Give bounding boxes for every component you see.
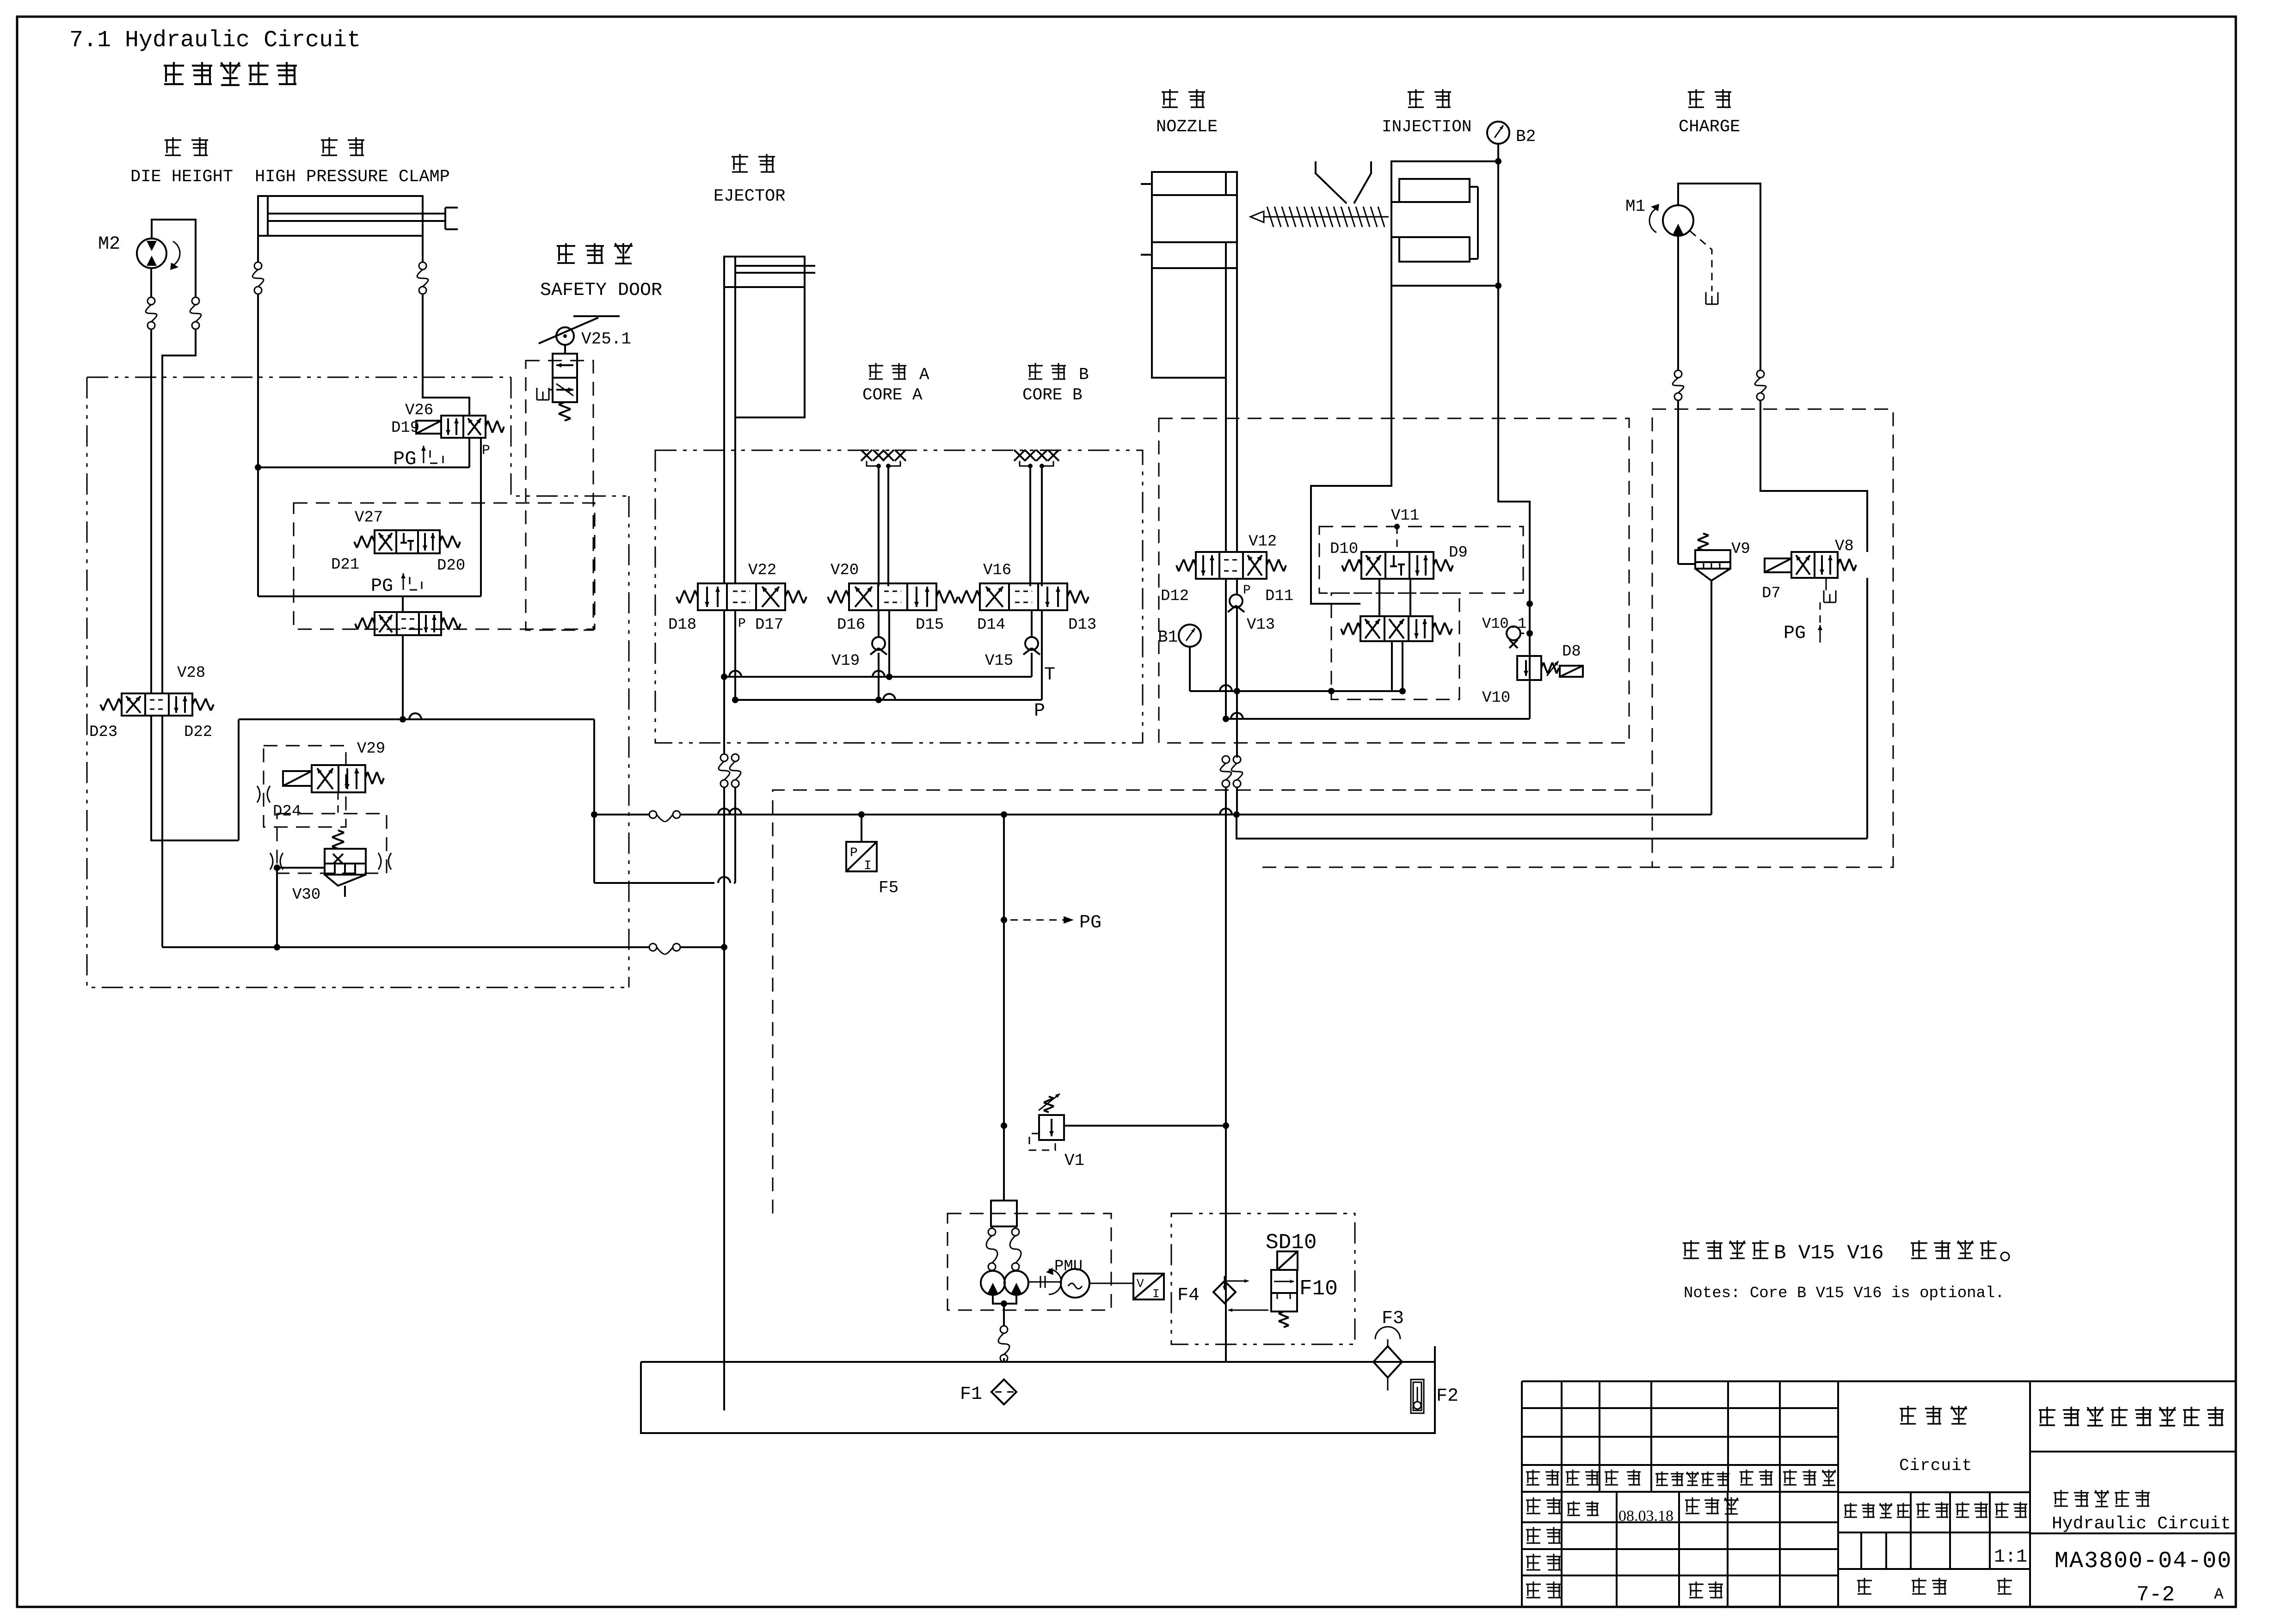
dashed box pump unit bbox=[948, 1213, 1111, 1310]
svg-text:F10: F10 bbox=[1299, 1277, 1338, 1301]
label V15 bbox=[985, 652, 1013, 670]
svg-text:V19: V19 bbox=[831, 652, 860, 670]
svg-text:DIE HEIGHT: DIE HEIGHT bbox=[130, 167, 233, 187]
wire V10 right bbox=[1526, 527, 1533, 719]
label D23 bbox=[89, 723, 117, 741]
dashed box center bbox=[773, 790, 1652, 1213]
wire V19 down bbox=[878, 610, 880, 700]
svg-text:V20: V20 bbox=[831, 562, 859, 579]
title text 7.1 Hydraulic Circuit bbox=[69, 27, 361, 54]
wire injection right down bbox=[1498, 286, 1530, 527]
svg-text:CHARGE: CHARGE bbox=[1679, 117, 1740, 137]
wire V11 top entry bbox=[1397, 527, 1398, 552]
valve V27 bbox=[354, 530, 460, 553]
label D19 bbox=[391, 419, 419, 437]
svg-text:D18: D18 bbox=[668, 616, 696, 634]
label P at V12 bbox=[1243, 583, 1251, 598]
wire V12 left below bbox=[1225, 579, 1227, 719]
cylinder clamp rod bracket bbox=[445, 208, 458, 229]
node clamp manifold line bbox=[255, 464, 469, 471]
svg-text:B1: B1 bbox=[1158, 628, 1178, 647]
label D21 bbox=[331, 556, 359, 574]
wire V22 right to line bbox=[734, 787, 736, 883]
heat exchanger F4 bbox=[1213, 1276, 1268, 1312]
label V8 bbox=[1835, 538, 1854, 555]
svg-text:Hydraulic Circuit: Hydraulic Circuit bbox=[2052, 1514, 2231, 1534]
svg-text:1:1: 1:1 bbox=[1994, 1547, 2027, 1568]
wire line 1910 bbox=[594, 877, 735, 883]
label EJECTOR (cn) bbox=[732, 154, 775, 172]
svg-text:NOZZLE: NOZZLE bbox=[1156, 117, 1218, 137]
vent V8 bbox=[1824, 578, 1836, 602]
svg-text:D22: D22 bbox=[184, 723, 212, 741]
dashed box safety door bbox=[526, 361, 593, 630]
label HIGH PRESSURE CLAMP (cn) bbox=[321, 137, 364, 155]
check valve V15 bbox=[1023, 637, 1040, 655]
svg-text:P: P bbox=[738, 617, 746, 631]
svg-text:D15: D15 bbox=[916, 616, 944, 634]
label V28 bbox=[177, 664, 205, 682]
label CHARGE (cn) bbox=[1688, 89, 1731, 107]
label F3 bbox=[1382, 1308, 1404, 1329]
valve V25.1 bbox=[537, 345, 577, 402]
label D17 bbox=[755, 616, 783, 634]
note line 2 bbox=[1684, 1285, 2005, 1302]
svg-text:D8: D8 bbox=[1562, 643, 1581, 661]
gauge B1 bbox=[1179, 625, 1201, 691]
label M1 bbox=[1625, 197, 1645, 216]
valve V27 pilot lower bbox=[355, 612, 461, 635]
svg-text:D20: D20 bbox=[437, 557, 465, 575]
label PMU bbox=[1054, 1258, 1083, 1275]
PG tap center bbox=[1001, 913, 1101, 933]
wire nozzle left bbox=[1152, 268, 1226, 378]
valve V29 bbox=[283, 765, 384, 792]
gauge B2 bbox=[1487, 122, 1509, 161]
svg-text:P: P bbox=[482, 443, 490, 459]
line B charge return bbox=[1237, 815, 1867, 839]
coupler line 2049 bbox=[649, 944, 680, 954]
svg-text:D23: D23 bbox=[89, 723, 117, 741]
wire ejector right bbox=[734, 417, 736, 583]
note line 1 (cn) bbox=[1683, 1240, 2009, 1265]
cylinder clamp body bbox=[258, 196, 423, 236]
svg-text:F1: F1 bbox=[960, 1384, 982, 1405]
svg-text:V8: V8 bbox=[1835, 538, 1854, 555]
dashed box V30 outer bbox=[277, 814, 387, 873]
label V13 bbox=[1247, 616, 1275, 634]
wire M1 bottom bbox=[1677, 236, 1679, 370]
label D18 bbox=[668, 616, 696, 634]
filter F1 bbox=[991, 1379, 1016, 1404]
label B2 bbox=[1516, 127, 1536, 146]
screw injection bbox=[1250, 207, 1389, 227]
coupler pump right bbox=[1010, 1228, 1021, 1270]
svg-text:V1: V1 bbox=[1064, 1151, 1084, 1170]
line P bbox=[732, 694, 1042, 703]
svg-text:V12: V12 bbox=[1249, 533, 1277, 551]
svg-text:7-2: 7-2 bbox=[2136, 1583, 2175, 1607]
cylinder injection bbox=[1391, 161, 1498, 286]
valve V20 bbox=[828, 583, 958, 610]
coupler clamp left bbox=[252, 262, 264, 294]
label F2 bbox=[1436, 1386, 1458, 1407]
tank bbox=[641, 1346, 1435, 1433]
svg-text:V30: V30 bbox=[292, 886, 320, 904]
svg-text:V: V bbox=[1137, 1277, 1144, 1291]
wire V10.1 link bbox=[1520, 633, 1530, 634]
wire injection left down bbox=[1311, 286, 1391, 604]
svg-text:F3: F3 bbox=[1382, 1308, 1404, 1329]
label D20 bbox=[437, 557, 465, 575]
dashed box V11 lower bbox=[1331, 593, 1459, 699]
box V27 solid enclosure bbox=[258, 595, 481, 597]
svg-text:P: P bbox=[1243, 583, 1251, 598]
sensor F5 bbox=[846, 815, 877, 873]
svg-text:V22: V22 bbox=[748, 562, 776, 579]
pilot PG arrow V27 bbox=[401, 573, 422, 590]
wire clamp right port bbox=[422, 236, 424, 262]
wire V29 down bbox=[338, 792, 339, 814]
roller V25.1 bbox=[539, 316, 620, 345]
coupler V22 right bbox=[730, 754, 741, 787]
dashed box V29 bbox=[264, 746, 346, 827]
svg-text:PG: PG bbox=[371, 576, 393, 597]
label DIE HEIGHT bbox=[130, 167, 233, 187]
suction pipe bbox=[723, 1362, 725, 1410]
valve V8 bbox=[1765, 552, 1856, 578]
svg-text:A: A bbox=[2214, 1586, 2224, 1604]
svg-text:V28: V28 bbox=[177, 664, 205, 682]
filter F3 diamond bbox=[1373, 1346, 1402, 1391]
check valve V19 bbox=[870, 637, 887, 655]
line B1 bbox=[1190, 685, 1406, 694]
wire nozzle right down bbox=[1236, 268, 1238, 552]
label D13 bbox=[1068, 616, 1096, 634]
label NOZZLE (cn) bbox=[1162, 89, 1205, 107]
svg-text:F5: F5 bbox=[879, 878, 898, 897]
label SAFETY DOOR bbox=[540, 280, 662, 301]
valve V12 bbox=[1176, 552, 1286, 579]
label D24 bbox=[273, 803, 301, 821]
label B1 bbox=[1158, 628, 1178, 647]
svg-text:CORE B: CORE B bbox=[1022, 386, 1083, 404]
label CORE B (cn) bbox=[1028, 363, 1089, 384]
wire 1556 corner down bbox=[591, 719, 597, 883]
svg-text:CORE A: CORE A bbox=[862, 386, 923, 404]
label M2 bbox=[98, 234, 120, 255]
svg-text:PMU: PMU bbox=[1054, 1258, 1083, 1275]
svg-text:D9: D9 bbox=[1449, 544, 1468, 562]
svg-text:F4: F4 bbox=[1177, 1285, 1200, 1306]
label V10.1 bbox=[1482, 615, 1526, 632]
coupler M1 left bbox=[1673, 370, 1684, 400]
converter VI bbox=[1133, 1274, 1164, 1301]
cylinder ejector bbox=[724, 257, 815, 417]
wire V26 bottom bbox=[469, 438, 481, 596]
dashed box V11 upper bbox=[1319, 524, 1523, 593]
svg-text:T: T bbox=[1044, 665, 1055, 686]
svg-text:08.03.18: 08.03.18 bbox=[1618, 1508, 1674, 1525]
wire core A right bbox=[887, 466, 889, 586]
level gauge F2 bbox=[1411, 1379, 1424, 1413]
wire V9 down bbox=[1710, 581, 1712, 815]
wire V27 to lower valve bbox=[402, 596, 404, 612]
svg-text:M2: M2 bbox=[98, 234, 120, 255]
label D22 bbox=[184, 723, 212, 741]
hopper injection bbox=[1316, 161, 1371, 203]
label D12 bbox=[1161, 588, 1189, 605]
svg-text:D12: D12 bbox=[1161, 588, 1189, 605]
valve V11 upper bbox=[1342, 552, 1453, 579]
label F1 bbox=[960, 1384, 982, 1405]
valve V11 lower bbox=[1341, 616, 1452, 641]
wire PMU VI bbox=[1089, 1283, 1133, 1284]
svg-text:B V15 V16: B V15 V16 bbox=[1774, 1242, 1884, 1265]
core A ports bbox=[861, 450, 906, 468]
wire V28 right below bbox=[161, 716, 163, 947]
pump outlet bbox=[993, 1295, 1016, 1326]
drain M1 dashed bbox=[1690, 231, 1718, 304]
label HIGH PRESSURE CLAMP bbox=[255, 167, 450, 187]
valve V10 bbox=[1517, 656, 1583, 680]
svg-text:V26: V26 bbox=[405, 402, 433, 419]
svg-text:P: P bbox=[850, 846, 858, 860]
dash-dot box core bbox=[655, 450, 1143, 743]
wire line V27 to main bbox=[239, 713, 594, 719]
label F5 bbox=[879, 878, 898, 897]
pump P2 bbox=[1004, 1271, 1028, 1295]
label V30 bbox=[292, 886, 320, 904]
dash-dot box SD10 bbox=[1171, 1213, 1355, 1344]
label V16 bbox=[983, 562, 1011, 579]
label V26 bbox=[405, 402, 433, 419]
svg-text:B: B bbox=[1079, 365, 1089, 384]
wire V11 mid wires bbox=[1379, 579, 1410, 616]
wire M1 right down bbox=[1760, 400, 1867, 552]
core B ports bbox=[1014, 450, 1059, 468]
wires V22 below bbox=[724, 610, 735, 754]
svg-text:D16: D16 bbox=[837, 616, 865, 634]
label CHARGE bbox=[1679, 117, 1740, 137]
coupler nozzle pair bbox=[1220, 756, 1243, 787]
svg-text:SAFETY DOOR: SAFETY DOOR bbox=[540, 280, 662, 301]
label D10 bbox=[1330, 540, 1358, 558]
cylinder clamp rod bbox=[268, 214, 445, 221]
label SAFETY DOOR (cn) bbox=[557, 243, 633, 264]
svg-text:I: I bbox=[1152, 1287, 1160, 1301]
svg-text:D17: D17 bbox=[755, 616, 783, 634]
wire pump to tank bbox=[1003, 1358, 1005, 1362]
title text (liquid pressure schematic) bbox=[164, 62, 297, 85]
pump P1 bbox=[981, 1271, 1005, 1295]
coupler M2 left bbox=[146, 297, 157, 329]
label D8 bbox=[1562, 643, 1581, 661]
label V10 bbox=[1482, 689, 1510, 707]
wire V27 lower out bbox=[400, 635, 406, 723]
label F10 bbox=[1299, 1277, 1338, 1301]
svg-text:EJECTOR: EJECTOR bbox=[714, 187, 785, 206]
wire nozzle left down bbox=[1225, 378, 1227, 552]
throttle V29 bbox=[257, 786, 270, 803]
svg-text:V10: V10 bbox=[1482, 689, 1510, 707]
valve V28 bbox=[100, 693, 214, 716]
label INJECTION (cn) bbox=[1408, 89, 1451, 107]
svg-text:V27: V27 bbox=[355, 509, 383, 527]
wire nozzle mid bbox=[1225, 268, 1227, 378]
dashed box charge bbox=[1652, 409, 1893, 867]
coupler V22 left bbox=[719, 754, 730, 787]
wire clamp right down bbox=[423, 294, 469, 416]
label CORE A bbox=[862, 386, 923, 404]
wire V12 right below bbox=[1236, 579, 1238, 758]
label D14 bbox=[977, 616, 1005, 634]
wire nozzle left long bbox=[1223, 787, 1229, 1362]
wire M1 top loop bbox=[1678, 184, 1760, 370]
coupler M1 right bbox=[1755, 370, 1766, 400]
check valve V10.1 bbox=[1507, 626, 1520, 648]
valve V30 bbox=[325, 830, 366, 897]
svg-text:M1: M1 bbox=[1625, 197, 1645, 216]
label P at V22 bbox=[738, 617, 746, 631]
coupler main line bbox=[649, 811, 680, 821]
wire M2 left to V28 bbox=[150, 329, 152, 693]
wire M2 right jog bbox=[162, 329, 196, 693]
motor PMU bbox=[1061, 1269, 1089, 1298]
label D15 bbox=[916, 616, 944, 634]
label PG at V27 bbox=[371, 576, 393, 597]
label D11 bbox=[1265, 588, 1293, 605]
line V10 bottom bbox=[1223, 713, 1530, 722]
svg-text:PG: PG bbox=[1784, 623, 1806, 644]
breather F3 bbox=[1375, 1327, 1400, 1346]
svg-text:F2: F2 bbox=[1436, 1386, 1458, 1407]
coupler M2 right bbox=[190, 297, 201, 329]
throttle V30 left bbox=[270, 853, 283, 870]
label V9 bbox=[1731, 540, 1750, 558]
svg-text:D10: D10 bbox=[1330, 540, 1358, 558]
label D9 bbox=[1449, 544, 1468, 562]
pilot PG V8 bbox=[1818, 602, 1822, 643]
label V20 bbox=[831, 562, 859, 579]
wire clamp left down bbox=[257, 294, 259, 596]
svg-text:V13: V13 bbox=[1247, 616, 1275, 634]
svg-text:B2: B2 bbox=[1516, 127, 1536, 146]
label PG at V8 bbox=[1784, 623, 1806, 644]
label V25.1 bbox=[581, 330, 631, 349]
wire V11 lower down bbox=[1392, 641, 1403, 691]
svg-text:D7: D7 bbox=[1762, 585, 1781, 602]
label NOZZLE bbox=[1156, 117, 1218, 137]
wire line 2049 bbox=[162, 944, 727, 950]
wire V8 down bbox=[1866, 578, 1868, 839]
wire M1 left down bbox=[1677, 400, 1679, 564]
wire pump stubs bbox=[992, 1226, 1015, 1228]
label CORE B bbox=[1022, 386, 1083, 404]
svg-text:D11: D11 bbox=[1265, 588, 1293, 605]
wire V30 left bbox=[274, 864, 325, 871]
label T bbox=[1044, 665, 1055, 686]
wire ejector left bbox=[723, 287, 725, 583]
motor M2 bbox=[137, 239, 180, 270]
coupler pump out bbox=[998, 1326, 1009, 1362]
label V27 bbox=[355, 509, 383, 527]
svg-text:V25.1: V25.1 bbox=[581, 330, 631, 349]
throttle V30 right bbox=[378, 853, 391, 870]
label EJECTOR bbox=[714, 187, 785, 206]
wire core B left bbox=[1029, 466, 1031, 586]
label V1 bbox=[1064, 1151, 1084, 1170]
valve V26 bbox=[416, 416, 504, 438]
wire V30 down bbox=[274, 868, 280, 950]
svg-text:V9: V9 bbox=[1731, 540, 1750, 558]
wire core B right bbox=[1041, 466, 1043, 586]
dashed charge bottom ext bbox=[1262, 867, 1652, 868]
svg-text:I: I bbox=[864, 859, 872, 873]
valve F10 bbox=[1271, 1251, 1298, 1327]
wire M2 left down bbox=[150, 268, 152, 297]
wire V22 left to tank bbox=[723, 787, 725, 1410]
pump M1 bbox=[1649, 204, 1693, 236]
svg-text:D13: D13 bbox=[1068, 616, 1096, 634]
label D7 bbox=[1762, 585, 1781, 602]
wire V20 right down bbox=[886, 610, 892, 680]
label V12 bbox=[1249, 533, 1277, 551]
wire center down bbox=[1001, 815, 1007, 1201]
wire V16 left down bbox=[1041, 610, 1043, 700]
check valve V13 bbox=[1228, 594, 1244, 612]
title block table bbox=[1522, 1381, 2236, 1607]
svg-text:Notes: Core B V15 V16 is optio: Notes: Core B V15 V16 is optional. bbox=[1684, 1285, 2005, 1302]
svg-text:V16: V16 bbox=[983, 562, 1011, 579]
wire F4 down bbox=[1225, 1303, 1227, 1362]
svg-text:V11: V11 bbox=[1391, 507, 1419, 525]
svg-text:A: A bbox=[919, 365, 929, 384]
pump manifold bbox=[991, 1201, 1017, 1226]
shaft pump PMU bbox=[1029, 1268, 1061, 1294]
coupler clamp right bbox=[417, 262, 428, 294]
label SD10 bbox=[1266, 1231, 1317, 1255]
svg-text:D14: D14 bbox=[977, 616, 1005, 634]
label P line bbox=[1034, 701, 1045, 722]
wire V28 left below bbox=[151, 716, 239, 840]
dash-dot box left bbox=[87, 377, 629, 987]
svg-text:P: P bbox=[1034, 701, 1045, 722]
svg-text:MA3800-04-00: MA3800-04-00 bbox=[2055, 1548, 2232, 1575]
label INJECTION bbox=[1382, 117, 1471, 136]
label D16 bbox=[837, 616, 865, 634]
label PG at V26 bbox=[393, 448, 416, 470]
svg-text:INJECTION: INJECTION bbox=[1382, 117, 1471, 136]
svg-text:7.1 Hydraulic Circuit: 7.1 Hydraulic Circuit bbox=[69, 27, 361, 54]
valve V9 relief bbox=[1678, 533, 1730, 581]
cylinder nozzle bbox=[1141, 172, 1237, 268]
label V29 bbox=[357, 740, 385, 758]
valve V1 bbox=[1029, 1094, 1226, 1150]
label V22 bbox=[748, 562, 776, 579]
main line P bbox=[594, 809, 1711, 818]
wire V15 down bbox=[1031, 610, 1033, 677]
dashed box injection bbox=[1159, 418, 1629, 743]
svg-text:D21: D21 bbox=[331, 556, 359, 574]
svg-text:PG: PG bbox=[1079, 913, 1101, 933]
label F4 bbox=[1177, 1285, 1200, 1306]
line T bbox=[721, 671, 1032, 680]
wire injection right bbox=[1495, 158, 1501, 289]
label V19 bbox=[831, 652, 860, 670]
label CORE A (cn) bbox=[868, 363, 929, 384]
svg-text:HIGH PRESSURE CLAMP: HIGH PRESSURE CLAMP bbox=[255, 167, 450, 187]
